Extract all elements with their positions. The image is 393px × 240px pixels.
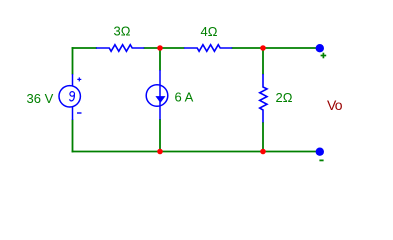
- junction node top-middle: [157, 45, 163, 51]
- voltage source inner S glyph: [70, 92, 75, 101]
- wire left branch upper: [72, 47, 74, 74]
- junction node bottom-right: [260, 149, 266, 155]
- junction node bottom-middle: [157, 149, 163, 155]
- resistor R3 2ohm vertical: [260, 74, 267, 122]
- svg-text:4Ω: 4Ω: [201, 24, 218, 39]
- wire top-middle segment: [144, 47, 185, 49]
- current source arrow: [155, 96, 165, 103]
- resistor R2 4ohm: [184, 45, 232, 52]
- wire middle branch upper: [159, 48, 161, 71]
- output minus sign: [319, 159, 323, 161]
- wire top-left segment: [72, 47, 97, 49]
- output terminal top: [316, 44, 324, 52]
- wire bottom rail: [72, 151, 320, 153]
- wire middle branch lower: [159, 119, 161, 152]
- svg-text:3Ω: 3Ω: [114, 24, 131, 39]
- voltage source plus sign: [77, 77, 81, 81]
- svg-text:6 A: 6 A: [175, 90, 194, 105]
- voltage source minus sign: [77, 112, 82, 114]
- junction node top-right: [260, 45, 266, 51]
- wire left branch lower: [72, 120, 74, 153]
- resistor R1 3ohm: [96, 45, 144, 52]
- wire right branch upper: [262, 48, 264, 75]
- wire top-right segment: [232, 47, 321, 49]
- svg-text:36 V: 36 V: [27, 91, 54, 106]
- svg-text:2Ω: 2Ω: [276, 90, 293, 105]
- current source I1 6A circle: [146, 70, 168, 120]
- output plus sign: [321, 53, 327, 59]
- voltage source V1 36V circle: [59, 74, 80, 120]
- wire right branch lower: [262, 122, 264, 152]
- output terminal bottom: [316, 148, 324, 156]
- svg-text:Vo: Vo: [327, 97, 343, 113]
